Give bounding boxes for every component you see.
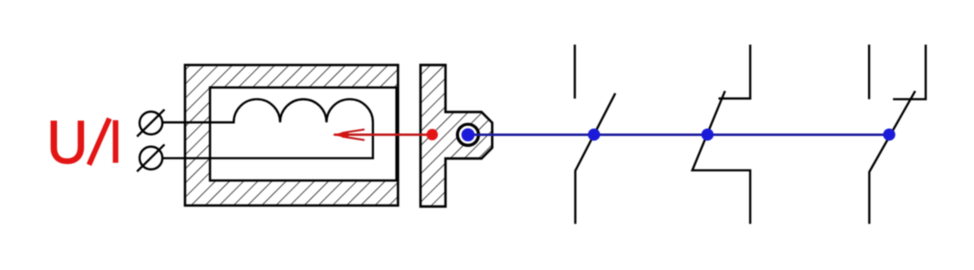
svg-text:U: U	[47, 109, 88, 176]
